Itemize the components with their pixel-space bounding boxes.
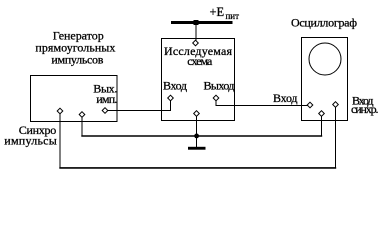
svg-text:пит: пит [226, 11, 240, 21]
terminal: oscilloscope Y input [307, 102, 313, 108]
svg-text:импульсы: импульсы [4, 134, 57, 148]
wire: +Epit power rail [171, 21, 233, 24]
terminal: test circuit ground [194, 111, 200, 117]
wire: sync wire upper vertical to oscilloscope mid terminal [321, 114, 323, 137]
terminal: generator sync 1 [57, 108, 63, 114]
svg-text:Вход: Вход [273, 91, 298, 105]
block: oscilloscope box [302, 38, 348, 121]
svg-text:Осциллограф: Осциллограф [291, 16, 357, 30]
svg-text:импульсов: импульсов [51, 53, 103, 67]
svg-text:Выход: Выход [204, 79, 235, 93]
wire: test circuit output to oscilloscope input [216, 98, 310, 106]
screen: oscilloscope CRT circle [309, 43, 341, 75]
terminal: generator sync 2 [79, 112, 85, 118]
terminal: oscilloscope mid (sync) [319, 111, 325, 117]
wire: sync wire upper horizontal run [81, 135, 322, 137]
wire: generator output to test circuit input [105, 98, 171, 111]
wire: ground lead from test circuit bottom [196, 114, 198, 148]
terminal: test circuit top (+E) [193, 40, 199, 46]
terminal: test circuit output [213, 95, 219, 101]
wire: sync wire lower vertical from generator [59, 111, 61, 169]
wire: sync wire upper vertical from generator [81, 115, 83, 137]
svg-text:схема: схема [187, 54, 213, 68]
ground [188, 147, 206, 150]
svg-text:имп.: имп. [96, 92, 117, 106]
node: junction dot on sync wire [194, 134, 199, 139]
terminal: oscilloscope right (sync) [333, 102, 339, 108]
svg-text:+E: +E [210, 5, 225, 19]
block: circuit under test box [162, 39, 235, 121]
svg-text:Вход: Вход [163, 79, 187, 93]
wire: sync wire lower vertical to oscilloscope right terminal [335, 105, 337, 169]
block: pulse generator box [31, 76, 118, 122]
node: junction square on power rail [194, 20, 199, 25]
svg-text:синхр.: синхр. [351, 102, 379, 116]
terminal: test circuit input [168, 95, 174, 101]
wire: rail down to test-circuit top terminal [195, 23, 197, 44]
wire: sync wire lower horizontal run [59, 167, 336, 169]
terminal: generator output [102, 108, 108, 114]
